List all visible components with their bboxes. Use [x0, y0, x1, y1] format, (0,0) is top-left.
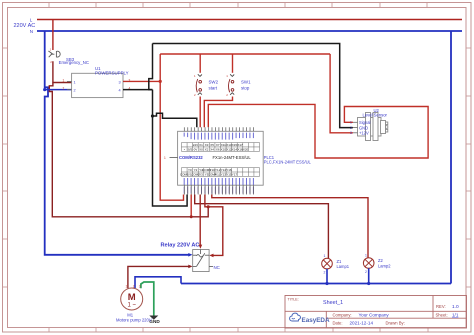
- junction +24V vertical: [159, 80, 162, 83]
- wire 0V branch to PLC S/S with hop: [153, 113, 197, 127]
- svg-text:3: 3: [139, 285, 141, 289]
- svg-text:Date:: Date:: [333, 321, 343, 326]
- PLC U3 body: [178, 131, 264, 185]
- svg-text:NC: NC: [214, 265, 220, 270]
- svg-text:N: N: [30, 29, 33, 34]
- wire N rail: [37, 30, 462, 32]
- svg-text:X20: X20: [243, 147, 249, 151]
- wire SW2 bottom to PLC: [199, 97, 201, 128]
- svg-text:2: 2: [133, 285, 135, 289]
- svg-text:1.0: 1.0: [452, 304, 459, 310]
- svg-text:Sheet_1: Sheet_1: [323, 300, 343, 306]
- wire lamp1 net: [195, 195, 329, 259]
- svg-text:Y3: Y3: [199, 172, 203, 176]
- wire SW1 bottom to PLC: [204, 97, 232, 128]
- wire emergency branch from L: [52, 20, 54, 51]
- svg-text:SW1: SW1: [241, 80, 251, 85]
- svg-text:•: •: [184, 147, 185, 151]
- motor pin marks: [126, 285, 141, 289]
- svg-text:2: 2: [350, 126, 352, 130]
- switch SW1: [229, 74, 235, 95]
- svg-text:Company:: Company:: [333, 313, 352, 318]
- wire SW2 top: [199, 54, 201, 73]
- wire 0V up jog: [149, 44, 153, 90]
- wire N right drop: [450, 31, 452, 284]
- svg-text:3: 3: [350, 131, 352, 135]
- node 220V AC labels: [14, 17, 36, 34]
- svg-text:REV:: REV:: [436, 304, 446, 309]
- wire N to PS pin2: [45, 89, 72, 91]
- svg-text:1/1: 1/1: [452, 313, 459, 318]
- svg-text:Lamp2: Lamp2: [378, 263, 391, 268]
- svg-text:Sheet:: Sheet:: [436, 313, 448, 318]
- svg-text:PLC,FX1N-24MT ESS/UL: PLC,FX1N-24MT ESS/UL: [264, 159, 312, 164]
- svg-text:COM/RS232: COM/RS232: [179, 155, 203, 160]
- motor M1 circle: [121, 288, 143, 310]
- frame zone ticks left edge: [3, 48, 8, 287]
- svg-text:Drawn By:: Drawn By:: [386, 321, 405, 326]
- PLC terminal grid top: [182, 143, 260, 152]
- wire lamp2 bottom: [368, 268, 370, 283]
- arrow into relay right: [209, 254, 213, 258]
- junction lamp1 N: [325, 282, 328, 285]
- wire relay top feed: [199, 195, 201, 246]
- wire SW1 top: [232, 54, 234, 73]
- wire lamp1 bottom: [326, 269, 328, 284]
- svg-text:2: 2: [63, 87, 65, 91]
- svg-text:1: 1: [126, 285, 128, 289]
- PLC bottom pin names: [184, 178, 254, 185]
- svg-text:4: 4: [119, 89, 121, 93]
- power supply U1: [67, 73, 128, 97]
- svg-text:Signal: Signal: [359, 120, 370, 125]
- svg-text:S/S: S/S: [187, 147, 192, 151]
- svg-text:Level Sensor: Level Sensor: [363, 112, 388, 117]
- wire +12V feed to sensor: [330, 54, 353, 133]
- svg-text:2: 2: [74, 89, 76, 93]
- svg-text:+12V: +12V: [359, 131, 369, 136]
- svg-text:1 ~: 1 ~: [127, 303, 136, 309]
- junction N/PS2: [43, 88, 46, 91]
- svg-text:Motore pump 220V: Motore pump 220V: [116, 317, 152, 322]
- arrow N into relay left: [188, 253, 192, 257]
- svg-text:X0: X0: [199, 147, 203, 151]
- lamp Z2: [363, 258, 374, 269]
- svg-text:POWERSUPPLY: POWERSUPPLY: [95, 70, 129, 75]
- wire 0V down rail: [153, 90, 188, 206]
- svg-text:Your Company: Your Company: [359, 313, 390, 318]
- svg-text:EasyEDA: EasyEDA: [302, 317, 330, 324]
- svg-text:stop: stop: [241, 86, 250, 91]
- wire motor L from relay: [128, 266, 190, 288]
- junction emergency/lamp1: [207, 205, 210, 208]
- svg-text:TITLE:: TITLE:: [288, 298, 299, 302]
- svg-text:start: start: [209, 86, 218, 91]
- svg-text:2: 2: [324, 271, 326, 275]
- switch SB3 Emergency_NC: [48, 51, 60, 57]
- wire N left drop: [45, 31, 190, 255]
- pin COM/RS232: [170, 156, 178, 158]
- PLC terminal grid bottom: [182, 168, 260, 177]
- wire emergency net down left side: [49, 83, 208, 217]
- svg-text:2021-12-14: 2021-12-14: [350, 321, 374, 326]
- arrow motor wire into relay left: [188, 265, 192, 269]
- svg-text:Emergency_NC: Emergency_NC: [59, 60, 89, 65]
- svg-text:3: 3: [119, 80, 121, 84]
- svg-text:X6: X6: [216, 147, 220, 151]
- wire +24V vertical rail: [160, 54, 183, 200]
- wire PS pin3 +24V: [123, 80, 160, 82]
- EasyEDA logo: [290, 313, 330, 324]
- svg-text:1: 1: [365, 254, 367, 258]
- level sensor U2: [358, 113, 388, 141]
- frame zone ticks bottom edge: [49, 328, 428, 333]
- relay K1 box: [193, 250, 209, 272]
- junction 0V branch: [151, 114, 154, 117]
- wire relay coil feed stair: [190, 195, 192, 217]
- lamp Z1: [322, 258, 333, 269]
- svg-text:2: 2: [365, 270, 367, 274]
- PLC top pin names blue: [184, 133, 254, 140]
- wire lamp2 net: [212, 195, 368, 258]
- wire 0V top rail to sensor GND: [153, 44, 353, 128]
- svg-text:1: 1: [324, 254, 326, 258]
- svg-text:L: L: [30, 17, 33, 22]
- svg-text:1: 1: [74, 80, 76, 84]
- svg-text:M: M: [128, 292, 136, 303]
- svg-text:FX1n-24MT-ESS/UL: FX1n-24MT-ESS/UL: [213, 155, 252, 160]
- svg-text:1: 1: [164, 156, 166, 160]
- frame zone ticks top edge: [49, 3, 427, 8]
- wire PS pin4 0V: [123, 89, 153, 91]
- svg-text:Lamp1: Lamp1: [337, 264, 350, 269]
- ground GND symbol: [149, 316, 158, 320]
- svg-text:Y17: Y17: [232, 172, 238, 176]
- svg-text:220V AC: 220V AC: [14, 23, 36, 29]
- wire relay right feed: [205, 195, 223, 256]
- svg-text:1: 1: [350, 121, 352, 125]
- switch SW2: [196, 74, 202, 95]
- PLC top pin ticks: [184, 127, 253, 131]
- svg-text:0V: 0V: [194, 147, 198, 151]
- wire sensor signal loop: [208, 104, 428, 158]
- wire emergency switch to PS pin1: [53, 61, 72, 82]
- wire N bottom bus: [181, 283, 451, 285]
- relay contact symbol: [193, 250, 213, 267]
- svg-text:Relay 220V AC: Relay 220V AC: [161, 243, 200, 249]
- svg-text:X4: X4: [210, 147, 214, 151]
- junction lamp2 N: [367, 282, 370, 285]
- wire motor N: [135, 277, 181, 289]
- frame zone ticks right edge: [466, 48, 471, 287]
- svg-text:SW2: SW2: [209, 80, 219, 85]
- wire motor earth green: [141, 282, 154, 316]
- arrow into relay top: [199, 245, 203, 249]
- wire L rail: [37, 19, 462, 21]
- title block: [285, 296, 467, 329]
- svg-text:X2: X2: [205, 147, 209, 151]
- svg-text:1: 1: [63, 79, 65, 83]
- wire switched L rail: [160, 53, 330, 55]
